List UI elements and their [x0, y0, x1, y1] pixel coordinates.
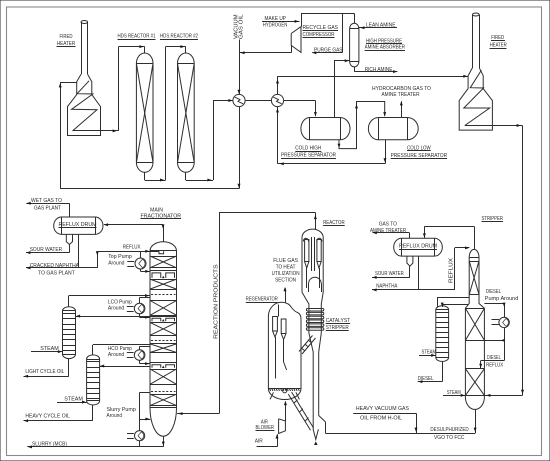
- svg-text:Around: Around: [108, 352, 124, 358]
- wire: reflux return to main fractionator: [97, 251, 99, 268]
- svg-text:REFLUX DRUM: REFLUX DRUM: [399, 244, 437, 250]
- fired heater H2 (right): [459, 13, 492, 130]
- svg-text:HYDROCARBON GAS TO: HYDROCARBON GAS TO: [372, 86, 431, 92]
- wire: make up hydrogen line: [262, 21, 300, 23]
- wire: reactor R1 bottoms to reactor R2: [144, 172, 146, 180]
- svg-text:Top Pump: Top Pump: [108, 254, 132, 260]
- wire: air inlet to blower: [257, 446, 278, 448]
- svg-text:OIL FROM H-OIL: OIL FROM H-OIL: [360, 416, 403, 422]
- pump P2 LCO pump around: [140, 297, 150, 299]
- HDS reactor #2 vessel: [178, 53, 195, 172]
- wire: E1 cold side down to heater loop: [239, 107, 241, 189]
- stripper internals: [469, 257, 479, 259]
- svg-text:HDS REACTOR #1: HDS REACTOR #1: [118, 33, 156, 39]
- svg-text:Slurry Pump: Slurry Pump: [107, 407, 136, 413]
- wire: combined riser feed line: [325, 433, 475, 435]
- wire: absorber overhead recycle to compressor suction: [354, 13, 356, 23]
- high pressure amine absorber column: [350, 23, 359, 67]
- svg-text:GAS OIL: GAS OIL: [239, 14, 245, 39]
- svg-text:HDS REACTOR #2: HDS REACTOR #2: [160, 33, 198, 39]
- wire: flue gas line: [285, 288, 287, 302]
- svg-text:LCO Pump: LCO Pump: [108, 299, 132, 305]
- wire: diesel reflux return: [504, 340, 506, 360]
- wire: steam to HCO stripper: [57, 402, 87, 404]
- wire: E2 cold outlet to fired heater H2: [277, 76, 279, 94]
- svg-text:FLUE GAS: FLUE GAS: [273, 258, 298, 264]
- svg-text:TO GAS PLANT: TO GAS PLANT: [38, 271, 75, 277]
- svg-text:AMINE TREATER: AMINE TREATER: [382, 92, 420, 98]
- svg-text:SOUR WATER: SOUR WATER: [375, 271, 404, 277]
- svg-text:STEAM: STEAM: [422, 349, 437, 355]
- wire: LCO stripper top line: [68, 296, 70, 307]
- wire: reactor R2 effluent to exchanger E1: [185, 172, 187, 180]
- pump P5 diesel pump around: [484, 303, 504, 305]
- svg-text:SOUR WATER: SOUR WATER: [30, 247, 62, 253]
- svg-text:COLD HIGH: COLD HIGH: [295, 146, 321, 152]
- svg-text:SECTION: SECTION: [275, 278, 296, 284]
- wire: E1 to E2 hot side: [245, 100, 271, 102]
- wire: wet gas from reflux drum D1: [69, 203, 71, 217]
- svg-text:CRACKED NAPHTHA: CRACKED NAPHTHA: [30, 263, 79, 269]
- wire: E2 hot side to cold HP separator: [284, 100, 316, 102]
- wire: HCO stripper top line: [92, 345, 94, 355]
- svg-text:Pump Around: Pump Around: [485, 296, 519, 302]
- internal reflux distributor stub: [159, 251, 164, 254]
- spent catalyst standpipe (reactor to regenerator): [299, 336, 313, 352]
- svg-text:Around: Around: [108, 305, 124, 311]
- heat exchanger E2: [271, 94, 283, 106]
- compressor K1 recycle gas: [291, 27, 301, 53]
- wire: sour water from drum D1 boot: [69, 245, 71, 253]
- regenerated catalyst standpipe (regenerator to riser): [288, 394, 310, 430]
- wire: HCO stripper overhead return: [93, 344, 150, 346]
- wire: rich amine outlet: [354, 67, 356, 72]
- wire: LCO stripper overhead return: [69, 295, 150, 297]
- drum D1 water boot: [66, 234, 72, 244]
- wire: stripper overhead to drum D2: [474, 226, 476, 249]
- svg-text:STRIPPER: STRIPPER: [482, 216, 504, 222]
- wire: steam to VGO stripper: [443, 395, 465, 397]
- wire: LCO draw to side stripper: [76, 316, 151, 318]
- svg-text:AMINE ABSORBER: AMINE ABSORBER: [365, 45, 405, 51]
- wire: fractionator overhead to drum D1: [163, 225, 165, 242]
- svg-text:HYDROGEN: HYDROGEN: [263, 23, 288, 29]
- svg-text:REGENERATOR: REGENERATOR: [246, 297, 278, 303]
- reflux drum D2: [394, 238, 443, 256]
- wire: steam to diesel stripper: [419, 355, 436, 357]
- wire: CLPS liquid to exchanger E2 cold side: [385, 140, 387, 164]
- svg-text:HEATER: HEATER: [57, 41, 76, 47]
- svg-text:GAS PLANT: GAS PLANT: [34, 205, 61, 211]
- svg-text:DIESEL: DIESEL: [486, 289, 501, 295]
- wire: feed into reactor R1 top: [119, 46, 145, 48]
- wire: heavy vacuum gas oil from H-Oil: [353, 413, 416, 415]
- fractionator internals: trays and packing: [150, 256, 177, 406]
- svg-text:Around: Around: [107, 413, 123, 419]
- svg-text:AIR: AIR: [255, 439, 263, 445]
- svg-text:Around: Around: [108, 260, 124, 266]
- svg-text:DIESEL: DIESEL: [418, 376, 434, 382]
- fired heater H1 (left): [68, 21, 101, 136]
- svg-text:FIRED: FIRED: [60, 34, 73, 40]
- wire: heavy cycle oil product: [92, 405, 94, 421]
- reflux drum D1: [54, 217, 103, 234]
- LCO side stripper column: [63, 307, 76, 359]
- wire: diesel stripper overhead return: [437, 298, 439, 308]
- svg-text:UTILIZATION: UTILIZATION: [272, 271, 300, 277]
- wire: heater H1 outlet to reactor R1: [73, 130, 119, 132]
- svg-text:PRESSURE SEPARATOR: PRESSURE SEPARATOR: [281, 153, 336, 159]
- svg-text:WET GAS TO: WET GAS TO: [31, 198, 62, 204]
- svg-text:HEAVY CYCLE OIL: HEAVY CYCLE OIL: [25, 414, 70, 420]
- svg-text:HCO Pump: HCO Pump: [108, 346, 132, 352]
- regenerator air grid: [268, 388, 301, 390]
- wire: FCC reactor overhead reaction products to fractionator: [315, 213, 317, 230]
- wire: CHPS vapour to absorber: [334, 61, 336, 118]
- diesel side stripper column: [436, 306, 449, 362]
- svg-text:MAIN: MAIN: [150, 207, 163, 213]
- svg-text:STEAM: STEAM: [64, 397, 83, 403]
- svg-text:HEAVY VACUUM GAS: HEAVY VACUUM GAS: [356, 406, 409, 412]
- reactor internal cyclones: [303, 237, 322, 292]
- svg-text:PURGE GAS: PURGE GAS: [314, 47, 343, 53]
- svg-text:STEAM: STEAM: [40, 346, 59, 352]
- wire: purge gas branch: [342, 13, 344, 52]
- svg-text:VGO TO FCC: VGO TO FCC: [434, 435, 465, 441]
- pump P1 top pump around: [140, 251, 142, 258]
- pump P4 slurry pump around: [140, 392, 151, 394]
- wire: diesel draw to side stripper: [442, 304, 468, 306]
- svg-text:REACTION PRODUCTS: REACTION PRODUCTS: [214, 264, 220, 339]
- wire: light cycle oil product: [68, 359, 70, 377]
- wire: heater H2 outlet to VGO stripper: [465, 125, 523, 127]
- main fractionator column: [150, 242, 177, 436]
- HCO side stripper column: [87, 355, 100, 405]
- svg-text:REFLUX: REFLUX: [448, 257, 454, 283]
- svg-text:DIESEL: DIESEL: [487, 355, 501, 361]
- svg-text:LIGHT CYCLE OIL: LIGHT CYCLE OIL: [25, 369, 65, 375]
- svg-text:DESULPHURIZED: DESULPHURIZED: [430, 427, 468, 433]
- wire: stripper bottoms desulphurized VGO: [475, 409, 477, 433]
- air blower: [279, 419, 286, 434]
- wire: cracked naphtha from drum D1: [78, 234, 80, 268]
- svg-text:RICH AMINE: RICH AMINE: [365, 67, 393, 73]
- wire: VGO feed to heater H1: [60, 82, 62, 189]
- wire: steam to LCO stripper: [31, 351, 63, 353]
- cold high pressure separator drum: [301, 118, 350, 140]
- svg-text:STEAM: STEAM: [447, 390, 461, 396]
- svg-text:GAS TO: GAS TO: [379, 222, 398, 228]
- VGO stripper column: [465, 249, 484, 409]
- pump P3 HCO pump around: [140, 346, 150, 348]
- catalyst stripper baffle discs: [306, 309, 323, 331]
- wire: naphtha product and reflux riser: [418, 256, 420, 290]
- wire: compressor discharge joins VGO feed: [291, 45, 293, 52]
- wire: lean amine inlet: [359, 27, 397, 29]
- wire: vacuum gas oil feed line down: [239, 40, 241, 95]
- wire: diesel product: [442, 362, 444, 382]
- FCC reactor vessel: [302, 229, 323, 292]
- wire: CLPS vapour to amine treating: [401, 101, 403, 117]
- regenerator internal cyclones: [273, 305, 287, 379]
- wire: gas to amine treater: [409, 233, 411, 238]
- svg-text:REFLUX: REFLUX: [486, 363, 503, 369]
- cold low pressure separator drum: [368, 118, 418, 140]
- wire: blower discharge to regenerator: [285, 402, 287, 422]
- svg-text:HEATER: HEATER: [490, 43, 507, 49]
- regenerator bottom head and skirt: [268, 389, 301, 400]
- svg-text:REFLUX: REFLUX: [123, 245, 141, 251]
- svg-text:AMINE TREATER: AMINE TREATER: [370, 228, 406, 234]
- wire: slurry MCB product: [163, 436, 165, 447]
- drum D2 water boot: [407, 256, 413, 266]
- svg-text:SLURRY (MCB): SLURRY (MCB): [32, 441, 67, 447]
- wire: feed into reactor R2 top: [166, 46, 186, 48]
- svg-text:NAPHTHA: NAPHTHA: [376, 284, 397, 290]
- HDS reactor #1 vessel: [136, 53, 153, 172]
- wire: HCO draw to side stripper: [100, 366, 150, 368]
- wire: CHPS liquid to CLPS: [339, 102, 385, 149]
- wire: sour water from drum D2: [409, 266, 411, 277]
- svg-text:TO HEAT: TO HEAT: [276, 265, 296, 271]
- FCC regenerator vessel: [268, 302, 301, 388]
- svg-text:LEAN AMINE: LEAN AMINE: [366, 23, 396, 29]
- heat exchanger E1: [233, 94, 245, 106]
- riser feed nozzle and bottom: [319, 416, 326, 422]
